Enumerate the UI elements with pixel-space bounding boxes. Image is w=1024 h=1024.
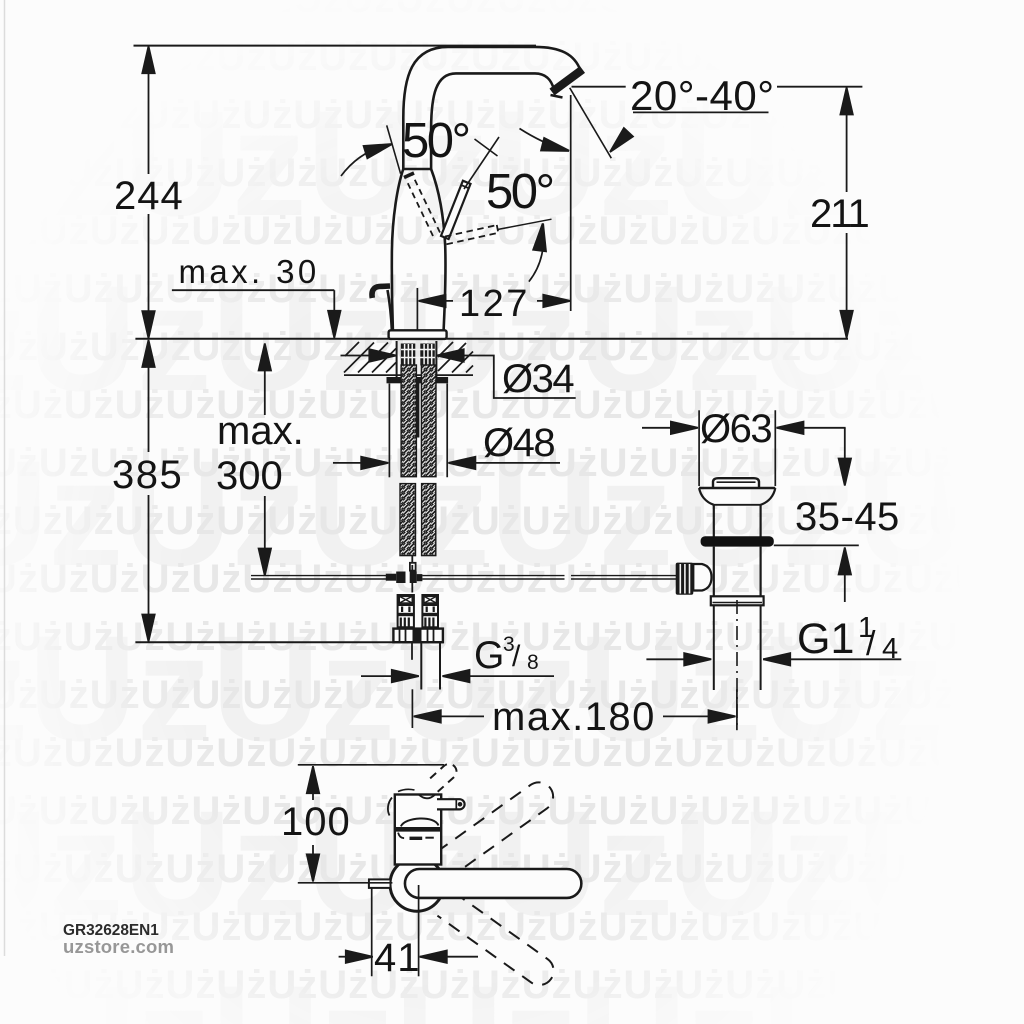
dimension max.30 leader <box>172 289 334 291</box>
counter bottom line <box>344 374 473 376</box>
rod pin above block <box>411 565 413 572</box>
spout outlet notch <box>551 95 563 98</box>
lever horizontal axis extension <box>498 219 552 229</box>
scan edge line left <box>4 0 6 956</box>
counter hatching left <box>344 342 396 373</box>
svg-text:Ø48: Ø48 <box>483 421 554 465</box>
knurled adjuster knob <box>676 563 694 595</box>
svg-text:35-45: 35-45 <box>795 495 900 539</box>
threaded shank outline <box>396 341 398 377</box>
svg-text:50°: 50° <box>486 165 553 219</box>
dashed pin rotated position <box>428 764 457 792</box>
pop-up rod in gap <box>417 377 419 438</box>
drain tailpipe <box>713 605 715 690</box>
svg-text:Ø34: Ø34 <box>502 357 574 401</box>
svg-text:max. 30: max. 30 <box>179 253 320 290</box>
svg-text:100: 100 <box>281 800 351 844</box>
lever solid (50 deg up) <box>441 181 471 239</box>
svg-text:Ø63: Ø63 <box>700 407 771 451</box>
drain body upper <box>713 505 715 537</box>
plan pin capsule <box>437 799 465 809</box>
pop-up rod tail <box>411 643 413 660</box>
thread texture left <box>401 344 435 366</box>
svg-text:244: 244 <box>114 174 184 218</box>
dimension O63 <box>698 410 700 486</box>
svg-text:/: / <box>512 640 521 673</box>
dimension 211 <box>846 89 848 192</box>
spout end face <box>552 70 583 93</box>
svg-text:G: G <box>474 634 504 677</box>
centerline above 127 dim <box>416 288 418 330</box>
handle capsule <box>405 869 581 898</box>
svg-text:max.: max. <box>217 409 304 453</box>
lever dashed horizontal position <box>445 225 498 244</box>
counter top line <box>135 338 848 340</box>
counter hatching right <box>438 342 473 373</box>
svg-text:300: 300 <box>216 454 283 498</box>
svg-text:211: 211 <box>810 192 869 236</box>
bottom reference line (385 dim) <box>135 641 443 643</box>
svg-text:UżUżUżUżUżUżUżUżUżUżUżUżUżUżUż: UżUżUżUżUżUżUżUżUżUżUżUżUżUżUżUżUżUżUżUż… <box>0 0 1024 21</box>
svg-text:uzstore.com: uzstore.com <box>63 936 174 957</box>
pop-up knob hook behind body <box>372 286 390 298</box>
body left profile <box>392 169 403 331</box>
arc arrow 50deg handle left <box>341 146 386 177</box>
rod break and continuation <box>571 575 676 577</box>
knob joint piece <box>693 564 711 591</box>
dimension labels <box>112 72 900 980</box>
dimension O34 <box>341 355 371 357</box>
spout tip vertical extension <box>570 95 572 311</box>
lever end cap line <box>462 185 470 188</box>
dimension 244 <box>148 47 150 174</box>
svg-text:max.180: max.180 <box>492 695 656 739</box>
rubber gasket ring <box>701 536 774 546</box>
drain coupling ring <box>711 596 764 605</box>
svg-text:41: 41 <box>374 936 421 980</box>
dimension G3/8 <box>361 675 391 677</box>
connection nuts band <box>393 629 443 643</box>
svg-text:50°: 50° <box>402 114 469 168</box>
horizontal rod right segment to drain <box>422 575 564 577</box>
spout outer curve <box>403 47 580 169</box>
DIMENSIONS <box>142 46 901 976</box>
dimension 41 <box>371 888 373 976</box>
arc arrow 50deg lever lift <box>529 229 544 282</box>
rod left nub <box>386 574 396 581</box>
plan body block <box>395 795 441 865</box>
supply connector right <box>422 595 438 629</box>
dimension 385 <box>148 341 150 452</box>
plan spout left silhouette <box>388 798 392 816</box>
braided hose left lower <box>400 484 416 556</box>
base circle outer <box>390 857 444 911</box>
rod right nub <box>417 574 423 581</box>
spout inner curve <box>431 73 554 169</box>
dimension G1 1/4 <box>646 658 684 660</box>
body right profile <box>431 169 445 331</box>
drain flange bottom line <box>714 504 761 506</box>
drain flange left curve <box>699 488 714 505</box>
dimension 127 <box>419 300 453 302</box>
20-40 diagonal line <box>570 88 612 158</box>
supply connector left <box>398 595 414 629</box>
plan top wavy contour <box>419 795 435 799</box>
lever dashed cap mark <box>404 173 414 178</box>
dashed handle position upper <box>437 777 559 875</box>
rod collar <box>410 563 416 571</box>
plan thick band <box>396 827 441 832</box>
svg-text:4: 4 <box>882 633 898 665</box>
dashed handle position lower <box>437 892 559 990</box>
plan spout lens shape <box>401 818 439 826</box>
dimension 100 <box>298 764 444 766</box>
pop-up rod below hoses <box>411 556 413 563</box>
svg-text:127: 127 <box>459 283 530 325</box>
rod center block <box>396 572 417 584</box>
arc arrow spout swivel <box>520 129 565 150</box>
drain plug cap <box>713 478 759 488</box>
base flange escutcheon <box>389 330 447 339</box>
PLAN VIEW <box>369 764 581 991</box>
svg-text:20°-40°: 20°-40° <box>630 72 775 119</box>
lever axis cross X <box>464 137 499 189</box>
body shoulder line <box>403 168 431 170</box>
dimension max.180 <box>414 710 441 722</box>
svg-text:385: 385 <box>112 453 183 497</box>
dimension max.300 <box>264 347 266 415</box>
top reference line <box>134 45 537 47</box>
20-40 leader lines <box>572 86 626 88</box>
lever dashed position inside body <box>406 176 440 237</box>
dimension 35-45 <box>844 428 846 460</box>
rod pin below block <box>411 583 413 593</box>
plan tick mark <box>410 837 423 840</box>
drain flange right curve <box>761 488 776 505</box>
horizontal pop-up rod left segment <box>251 575 386 577</box>
braided hose right upper <box>421 365 436 477</box>
drain flange top edge <box>699 487 775 489</box>
mounting nut <box>387 377 449 383</box>
braided hose right lower <box>422 484 436 556</box>
plan small arc below band <box>398 833 404 839</box>
svg-text:UżUżUżUżUżUżUżUżUżUżUżUżUżUżUż: UżUżUżUżUżUżUżUżUżUżUżUżUżUżUżUżUżUżUżUż… <box>0 93 1024 137</box>
svg-text:G1: G1 <box>797 615 854 663</box>
G3/8 tailpipe <box>420 643 422 690</box>
svg-text:8: 8 <box>527 651 539 674</box>
drain centerline dash-dot <box>736 600 738 730</box>
drain body lower <box>713 547 715 597</box>
left stub <box>369 879 391 888</box>
lever axis extension line upper left <box>387 125 401 173</box>
dimension O48 <box>388 384 390 478</box>
braided hose left upper <box>401 365 416 477</box>
svg-text:/: / <box>866 625 876 663</box>
svg-text:UżUżUżUżUżUżUżUżUżUżUżUżUżUżUż: UżUżUżUżUżUżUżUżUżUżUżUżUżUżUżUżUżUżUżUż… <box>0 789 1024 833</box>
faucet centerline extension (max180 left) <box>411 689 413 728</box>
